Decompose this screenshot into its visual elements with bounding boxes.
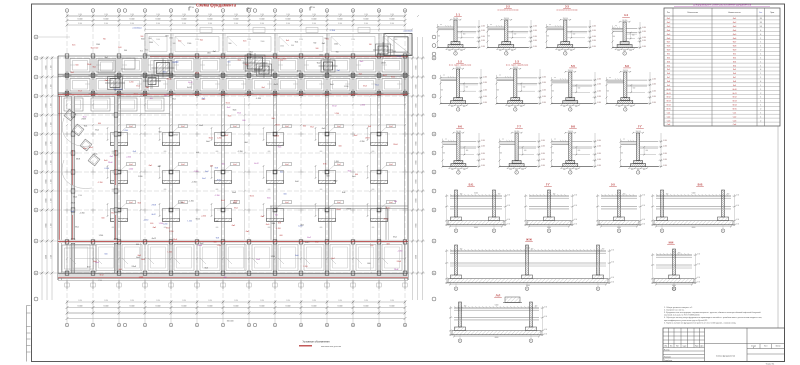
- svg-text:1.200: 1.200: [334, 161, 339, 163]
- svg-text:1: 1: [760, 57, 761, 59]
- svg-text:Фм4: Фм4: [667, 29, 671, 32]
- svg-text:5100: 5100: [526, 248, 530, 250]
- svg-text:-1.050: -1.050: [597, 153, 601, 155]
- svg-text:2: 2: [760, 120, 761, 122]
- svg-text:-1.350: -1.350: [98, 182, 103, 184]
- svg-text:1.200: 1.200: [167, 252, 172, 254]
- svg-text:0.90: 0.90: [574, 223, 577, 225]
- svg-text:600: 600: [284, 194, 287, 196]
- svg-text:-1.050: -1.050: [652, 79, 656, 81]
- svg-text:Фм5: Фм5: [237, 111, 241, 114]
- svg-text:1.200: 1.200: [335, 113, 340, 115]
- svg-text:-1.050: -1.050: [533, 46, 537, 48]
- svg-text:900: 900: [313, 42, 316, 44]
- svg-text:-1.050: -1.050: [483, 96, 487, 98]
- svg-text:1: 1: [516, 172, 517, 174]
- svg-text:150 150: 150 150: [513, 67, 518, 69]
- svg-text:13: 13: [378, 10, 380, 12]
- svg-text:6 000: 6 000: [364, 19, 369, 21]
- svg-text:156 000: 156 000: [227, 320, 234, 322]
- svg-text:900: 900: [228, 43, 231, 45]
- svg-text:Фм1: Фм1: [295, 40, 298, 43]
- svg-text:11: 11: [326, 10, 328, 12]
- svg-text:ø1200мм: ø1200мм: [403, 31, 413, 33]
- svg-text:Фм1: Фм1: [243, 40, 246, 43]
- svg-text:Фл14: Фл14: [732, 104, 736, 107]
- svg-text:К: К: [36, 96, 37, 98]
- svg-text:Фл8: Фл8: [278, 222, 281, 225]
- svg-text:1: 1: [760, 116, 761, 118]
- svg-text:600: 600: [216, 189, 219, 191]
- svg-text:Фл9: Фл9: [667, 84, 670, 87]
- svg-text:3 000: 3 000: [208, 23, 212, 25]
- svg-text:2Фл8: 2Фл8: [397, 260, 401, 263]
- svg-text:-1.350: -1.350: [79, 213, 84, 215]
- svg-text:Фм3: Фм3: [283, 57, 287, 60]
- svg-text:3 000: 3 000: [338, 23, 342, 25]
- svg-text:Фм5: Фм5: [237, 58, 241, 61]
- svg-text:1 500: 1 500: [51, 223, 53, 227]
- svg-text:-1.350: -1.350: [360, 104, 365, 106]
- svg-text:300: 300: [617, 50, 620, 52]
- svg-text:3 000: 3 000: [364, 23, 368, 25]
- svg-text:-1.050: -1.050: [483, 90, 487, 92]
- svg-text:6 000: 6 000: [46, 179, 48, 183]
- svg-text:-1.350: -1.350: [104, 168, 109, 170]
- svg-text:Фм2: Фм2: [334, 179, 338, 182]
- svg-text:Фм2: Фм2: [145, 86, 149, 89]
- svg-text:3 000: 3 000: [312, 23, 316, 25]
- svg-text:600: 600: [222, 164, 225, 166]
- svg-text:150 150: 150 150: [453, 18, 458, 20]
- svg-text:-1.050: -1.050: [663, 145, 667, 147]
- svg-text:1: 1: [565, 53, 566, 55]
- svg-text:1: 1: [624, 53, 625, 55]
- svg-text:3 000: 3 000: [78, 23, 82, 25]
- svg-text:300: 300: [602, 249, 605, 251]
- svg-text:Фл2: Фл2: [733, 56, 736, 59]
- svg-text:0.90: 0.90: [642, 219, 645, 221]
- svg-text:900: 900: [291, 45, 294, 47]
- svg-text:6000: 6000: [692, 227, 696, 229]
- svg-text:Фм1: Фм1: [300, 223, 304, 226]
- svg-text:1 490: 1 490: [130, 14, 134, 16]
- svg-text:600: 600: [463, 34, 466, 36]
- svg-text:-1.350: -1.350: [201, 216, 206, 218]
- svg-text:1500: 1500: [187, 43, 191, 45]
- svg-text:Фл12: Фл12: [217, 179, 221, 182]
- svg-text:Фм3: Фм3: [667, 25, 671, 28]
- svg-text:Фл12: Фл12: [391, 75, 395, 78]
- svg-text:См1: См1: [667, 112, 671, 114]
- svg-text:5-5: 5-5: [571, 64, 575, 68]
- svg-text:-1.050: -1.050: [597, 165, 601, 167]
- svg-text:1 400: 1 400: [195, 39, 199, 41]
- svg-text:-1.350: -1.350: [193, 171, 198, 173]
- svg-text:2: 2: [760, 109, 761, 111]
- svg-text:300: 300: [464, 306, 467, 308]
- svg-text:6 000: 6 000: [260, 19, 265, 21]
- svg-text:Поз.: Поз.: [667, 12, 671, 14]
- svg-text:6 000: 6 000: [78, 306, 83, 308]
- svg-text:900: 900: [500, 153, 503, 155]
- svg-text:Фм5: Фм5: [104, 159, 108, 162]
- svg-text:900: 900: [621, 153, 624, 155]
- svg-text:900: 900: [103, 39, 106, 41]
- svg-text:600: 600: [646, 150, 649, 152]
- svg-text:Фм9: Фм9: [667, 49, 671, 52]
- svg-text:6 000: 6 000: [156, 306, 161, 308]
- svg-text:6 000: 6 000: [390, 306, 395, 308]
- svg-text:1: 1: [515, 109, 516, 111]
- svg-text:300: 300: [618, 106, 621, 108]
- svg-text:Проверил: Проверил: [664, 356, 671, 358]
- svg-text:6 000: 6 000: [130, 306, 135, 308]
- svg-text:-1.050: -1.050: [483, 82, 487, 84]
- svg-text:14: 14: [404, 10, 406, 12]
- svg-text:600: 600: [394, 201, 397, 203]
- svg-text:11: 11: [326, 325, 328, 327]
- svg-text:300: 300: [531, 249, 534, 251]
- svg-text:900: 900: [443, 153, 446, 155]
- svg-text:Фм5: Фм5: [322, 127, 326, 130]
- svg-text:Фм1: Фм1: [140, 49, 143, 52]
- svg-text:2Фл8: 2Фл8: [76, 158, 80, 161]
- svg-text:900: 900: [497, 89, 500, 91]
- svg-text:600: 600: [280, 172, 283, 174]
- svg-text:2Фл8: 2Фл8: [167, 77, 171, 80]
- svg-text:1500: 1500: [169, 37, 173, 39]
- svg-text:6 000: 6 000: [104, 306, 109, 308]
- svg-text:6 000: 6 000: [234, 19, 239, 21]
- svg-text:Фл5: Фл5: [667, 68, 670, 71]
- svg-text:0.90: 0.90: [507, 219, 510, 221]
- svg-text:-1.050: -1.050: [483, 76, 487, 78]
- svg-text:1: 1: [67, 325, 68, 327]
- svg-text:Фм1: Фм1: [352, 175, 356, 178]
- svg-text:Фм2: Фм2: [285, 163, 288, 166]
- svg-text:Фм3: Фм3: [199, 124, 203, 127]
- svg-text:8-8: 8-8: [571, 125, 575, 129]
- svg-text:Фм2: Фм2: [221, 199, 225, 202]
- svg-text:-1.350: -1.350: [238, 151, 243, 153]
- svg-text:300: 300: [575, 106, 578, 108]
- svg-text:Фм1: Фм1: [200, 38, 203, 41]
- svg-text:Фм3: Фм3: [233, 108, 237, 111]
- svg-text:4. Обратную засыпку пазух фунд: 4. Обратную засыпку пазух фундаментов пр…: [664, 316, 762, 319]
- svg-text:4: 4: [760, 69, 761, 71]
- svg-text:Фл14: Фл14: [666, 104, 670, 107]
- svg-text:8: 8: [249, 325, 250, 327]
- svg-text:-1.350: -1.350: [397, 250, 402, 252]
- svg-text:-1.050: -1.050: [597, 145, 601, 147]
- svg-text:900: 900: [613, 36, 616, 38]
- svg-text:Фм1: Фм1: [110, 155, 114, 158]
- svg-text:Фл4: Фл4: [667, 64, 670, 67]
- svg-text:Фм1: Фм1: [375, 84, 379, 87]
- svg-text:26: 26: [760, 18, 762, 20]
- svg-text:600: 600: [112, 227, 115, 229]
- svg-text:1 490: 1 490: [338, 14, 342, 16]
- svg-text:2Фл8: 2Фл8: [336, 208, 340, 211]
- svg-text:1.200: 1.200: [344, 86, 349, 88]
- svg-text:Фм1: Фм1: [225, 134, 229, 137]
- svg-text:3 000: 3 000: [130, 23, 134, 25]
- svg-text:-1.050: -1.050: [663, 140, 667, 142]
- svg-text:600: 600: [105, 253, 108, 255]
- svg-text:Фл10: Фл10: [666, 88, 670, 91]
- svg-text:600: 600: [216, 151, 219, 153]
- svg-text:0.90: 0.90: [697, 281, 700, 283]
- svg-text:1 500: 1 500: [51, 84, 53, 88]
- svg-text:6 000: 6 000: [78, 19, 83, 21]
- svg-text:См4: См4: [667, 124, 671, 126]
- svg-text:5100: 5100: [547, 193, 551, 195]
- svg-text:-1.050: -1.050: [481, 25, 485, 27]
- svg-text:300: 300: [521, 169, 524, 171]
- svg-text:Фм2: Фм2: [164, 94, 168, 97]
- svg-text:1 490: 1 490: [78, 300, 82, 302]
- svg-text:Фм5: Фм5: [266, 223, 270, 226]
- svg-text:Фм2: Фм2: [205, 170, 209, 173]
- svg-text:1 500: 1 500: [51, 65, 53, 69]
- svg-text:Фм1: Фм1: [111, 211, 115, 214]
- svg-text:-1.350: -1.350: [191, 182, 196, 184]
- svg-text:600: 600: [367, 263, 370, 265]
- svg-text:5100: 5100: [617, 193, 621, 195]
- svg-text:6 000: 6 000: [390, 19, 395, 21]
- svg-text:1 490: 1 490: [182, 300, 186, 302]
- svg-text:-1.350: -1.350: [276, 228, 281, 230]
- svg-text:Фм2: Фм2: [233, 125, 236, 128]
- svg-text:3. Фундаментные конструкции, с: 3. Фундаментные конструкции, соприкасающ…: [664, 311, 761, 314]
- svg-text:-1.050: -1.050: [652, 102, 656, 104]
- svg-text:Фм2: Фм2: [95, 129, 99, 132]
- svg-text:600: 600: [214, 241, 217, 243]
- svg-text:Фл12: Фл12: [383, 74, 387, 77]
- svg-text:600: 600: [514, 34, 517, 36]
- svg-text:900: 900: [438, 36, 441, 38]
- svg-text:-1.050: -1.050: [481, 145, 485, 147]
- svg-text:4: 4: [145, 10, 146, 12]
- svg-text:3 000: 3 000: [104, 23, 108, 25]
- svg-text:Схема фундаментов: Схема фундаментов: [716, 355, 735, 358]
- svg-text:300: 300: [498, 194, 501, 196]
- svg-text:1 400: 1 400: [351, 39, 355, 41]
- svg-text:Фм3: Фм3: [232, 191, 236, 194]
- svg-text:600: 600: [150, 223, 153, 225]
- svg-text:1.200: 1.200: [169, 231, 174, 233]
- svg-text:600: 600: [320, 189, 323, 191]
- svg-text:-1.050: -1.050: [542, 76, 546, 78]
- svg-text:600: 600: [136, 244, 139, 246]
- svg-text:150 150: 150 150: [636, 131, 641, 133]
- svg-text:600: 600: [370, 245, 373, 247]
- svg-text:6 000: 6 000: [416, 160, 418, 164]
- svg-text:Фл8: Фл8: [244, 141, 247, 144]
- svg-text:6 000: 6 000: [416, 179, 418, 183]
- svg-text:Фм5: Фм5: [94, 152, 98, 155]
- svg-text:2Фл8: 2Фл8: [108, 161, 112, 164]
- svg-text:-1.050: -1.050: [542, 96, 546, 98]
- svg-text:-1.050: -1.050: [483, 102, 487, 104]
- svg-text:Фл12: Фл12: [196, 217, 200, 220]
- svg-text:Фл8: Фл8: [295, 180, 298, 183]
- svg-text:1 490: 1 490: [286, 300, 290, 302]
- svg-text:Фм5: Фм5: [733, 33, 737, 36]
- svg-text:1.200: 1.200: [217, 245, 222, 247]
- svg-text:Фл12: Фл12: [250, 195, 254, 198]
- svg-text:3 000: 3 000: [156, 23, 160, 25]
- svg-text:600: 600: [327, 175, 330, 177]
- svg-text:Фл12: Фл12: [274, 83, 278, 86]
- svg-text:Наименование: Наименование: [728, 12, 740, 14]
- svg-text:Фм1: Фм1: [91, 46, 94, 49]
- svg-text:Фл11: Фл11: [666, 92, 670, 95]
- svg-text:2Фл8: 2Фл8: [397, 55, 401, 58]
- svg-text:3 000: 3 000: [182, 23, 186, 25]
- svg-text:Фм2: Фм2: [733, 21, 737, 24]
- svg-text:300: 300: [460, 194, 463, 196]
- svg-text:Фм1: Фм1: [234, 199, 238, 202]
- svg-text:6 000: 6 000: [312, 306, 317, 308]
- svg-text:2-2: 2-2: [506, 5, 510, 9]
- svg-text:1500: 1500: [392, 51, 396, 53]
- svg-text:Фм2: Фм2: [181, 125, 184, 128]
- svg-text:2Фл8: 2Фл8: [365, 136, 369, 139]
- svg-text:1.200: 1.200: [139, 277, 144, 279]
- svg-text:-1.050: -1.050: [592, 40, 596, 42]
- svg-text:1 500: 1 500: [98, 280, 102, 282]
- svg-text:900: 900: [124, 50, 127, 52]
- svg-text:Фл12: Фл12: [384, 217, 388, 220]
- svg-text:Фм2: Фм2: [285, 201, 288, 204]
- svg-text:№док: №док: [683, 346, 687, 348]
- svg-text:1: 1: [760, 61, 761, 63]
- svg-text:Фл12: Фл12: [152, 237, 156, 240]
- svg-text:1 490: 1 490: [312, 14, 316, 16]
- svg-text:6 000: 6 000: [416, 255, 418, 259]
- svg-text:1: 1: [760, 105, 761, 107]
- svg-text:Фм2: Фм2: [315, 240, 319, 243]
- svg-text:Л-Л: Л-Л: [496, 294, 501, 298]
- svg-text:0.90: 0.90: [611, 281, 614, 283]
- svg-text:Фм2: Фм2: [234, 207, 238, 210]
- svg-text:10: 10: [300, 325, 302, 327]
- svg-text:1.200: 1.200: [123, 130, 128, 132]
- svg-text:-1.050: -1.050: [663, 159, 667, 161]
- svg-text:Фм2: Фм2: [337, 201, 340, 204]
- svg-text:Фм1: Фм1: [733, 17, 737, 20]
- svg-text:Фл12: Фл12: [173, 134, 177, 137]
- svg-text:600: 600: [303, 126, 306, 128]
- svg-text:-1.350: -1.350: [126, 156, 131, 158]
- svg-text:Фм3: Фм3: [228, 115, 232, 118]
- svg-text:300: 300: [511, 50, 514, 52]
- svg-text:1: 1: [760, 46, 761, 48]
- svg-text:600: 600: [159, 131, 162, 133]
- svg-text:1.200: 1.200: [99, 235, 104, 237]
- svg-text:Фм4: Фм4: [733, 29, 737, 32]
- svg-text:Г: Г: [434, 191, 435, 193]
- svg-text:6 000: 6 000: [286, 306, 291, 308]
- svg-text:900: 900: [145, 49, 148, 51]
- svg-text:1500: 1500: [96, 44, 100, 46]
- svg-text:1-1: 1-1: [456, 12, 460, 16]
- svg-text:-1.350: -1.350: [256, 98, 261, 100]
- svg-text:Фм2: Фм2: [73, 196, 77, 199]
- svg-text:-1.050: -1.050: [663, 165, 667, 167]
- svg-text:1 490: 1 490: [208, 14, 212, 16]
- svg-text:600: 600: [372, 189, 375, 191]
- svg-text:6 000: 6 000: [208, 306, 213, 308]
- svg-text:Фм5: Фм5: [278, 145, 282, 148]
- svg-text:Фм5: Фм5: [206, 140, 210, 143]
- svg-text:Фм7: Фм7: [733, 41, 737, 44]
- svg-text:1500: 1500: [280, 46, 284, 48]
- svg-text:5100: 5100: [672, 252, 676, 254]
- svg-text:6 000: 6 000: [130, 19, 135, 21]
- svg-text:Фм2: Фм2: [354, 134, 358, 137]
- svg-text:Фл9: Фл9: [733, 84, 736, 87]
- svg-text:Фл8: Фл8: [133, 150, 136, 153]
- svg-text:6 000: 6 000: [416, 65, 418, 69]
- svg-text:Фм1: Фм1: [136, 85, 140, 88]
- svg-text:Фм2: Фм2: [393, 236, 397, 239]
- svg-text:-1.050: -1.050: [642, 40, 646, 42]
- svg-text:0.90: 0.90: [697, 254, 700, 256]
- svg-text:2Фл8: 2Фл8: [393, 143, 397, 146]
- svg-text:1.200: 1.200: [179, 202, 184, 204]
- svg-text:1.200: 1.200: [217, 137, 222, 139]
- svg-text:Фм1: Фм1: [89, 146, 93, 149]
- svg-text:1500: 1500: [334, 43, 338, 45]
- svg-text:1: 1: [67, 10, 68, 12]
- svg-text:600: 600: [578, 150, 581, 152]
- svg-text:Фл12: Фл12: [332, 104, 336, 107]
- svg-text:600: 600: [224, 277, 227, 279]
- svg-text:Фм2: Фм2: [227, 106, 231, 109]
- svg-text:600: 600: [164, 151, 167, 153]
- svg-text:600: 600: [466, 150, 469, 152]
- svg-text:600: 600: [372, 151, 375, 153]
- svg-text:1 490: 1 490: [338, 300, 342, 302]
- svg-text:6 000: 6 000: [46, 84, 48, 88]
- svg-text:600: 600: [150, 98, 153, 100]
- svg-text:1.200: 1.200: [138, 176, 143, 178]
- svg-text:0.90: 0.90: [642, 195, 645, 197]
- svg-text:Фм2: Фм2: [181, 163, 184, 166]
- svg-text:Фл12: Фл12: [732, 96, 736, 99]
- svg-text:6 000: 6 000: [416, 103, 418, 107]
- svg-text:Фл1: Фл1: [667, 53, 670, 56]
- svg-text:Фм5: Фм5: [276, 57, 280, 60]
- svg-text:Ж-Ж: Ж-Ж: [525, 238, 532, 242]
- svg-text:Лист: Лист: [764, 345, 768, 347]
- svg-text:3-3: 3-3: [565, 5, 569, 9]
- svg-text:Фм3: Фм3: [137, 254, 141, 257]
- svg-text:3 000: 3 000: [286, 23, 290, 25]
- svg-text:-1.050: -1.050: [597, 96, 601, 98]
- svg-text:Фм2: Фм2: [285, 125, 288, 128]
- svg-text:Фм3: Фм3: [104, 79, 108, 82]
- svg-text:6 000: 6 000: [156, 19, 161, 21]
- svg-text:300: 300: [499, 50, 502, 52]
- svg-text:5100: 5100: [474, 193, 478, 195]
- svg-text:Г: Г: [36, 191, 37, 193]
- svg-text:1 400: 1 400: [299, 39, 303, 41]
- svg-text:Фл12: Фл12: [134, 93, 138, 96]
